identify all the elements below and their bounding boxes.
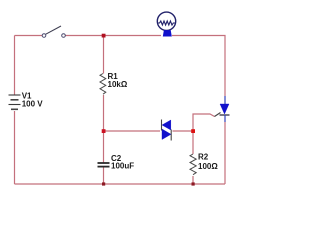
resistor R1 zigzag — [100, 74, 106, 95]
junction mid right — [191, 129, 195, 133]
junction bottom right — [192, 182, 195, 185]
SCR Q1 gate diagonal — [215, 113, 221, 117]
wire lamp to top right corner — [172, 36, 225, 97]
junction top — [102, 34, 106, 38]
switch S lever — [46, 26, 61, 34]
switch S right contact — [62, 34, 66, 38]
wire left vertical (battery top lead) — [14, 36, 16, 96]
wire top junction to lamp — [104, 35, 162, 37]
SCR Q1 triangle — [220, 104, 229, 114]
SCR Q1 cathode lead — [224, 115, 226, 122]
battery V1 plates — [9, 94, 21, 96]
wire top left to switch — [15, 35, 43, 37]
switch S left contact — [42, 34, 46, 38]
lamp X1 filament — [158, 21, 176, 25]
wire bottom rail — [15, 183, 226, 185]
diac D1 top triangle — [162, 120, 171, 130]
resistor R2 zigzag — [190, 154, 196, 175]
svg-text:100Ω: 100Ω — [198, 162, 218, 171]
wire middle branch R1 — [103, 36, 105, 74]
wire C2 bottom lead — [103, 167, 105, 185]
lamp X1 envelope — [157, 12, 175, 30]
wire left vertical (battery bottom lead) — [14, 111, 16, 184]
wire SCR cathode to bottom right corner — [224, 122, 226, 184]
wire gate branch — [193, 114, 215, 131]
svg-text:10kΩ: 10kΩ — [108, 80, 128, 89]
diac D1 right bar — [170, 130, 172, 141]
SCR Q1 anode lead — [224, 96, 226, 104]
svg-text:100uF: 100uF — [111, 162, 134, 171]
lamp X1 base — [163, 31, 171, 36]
wire middle horizontal to diac — [104, 130, 161, 132]
svg-text:R2: R2 — [198, 153, 209, 162]
wire switch to top junction — [66, 35, 104, 37]
junction mid left — [102, 129, 106, 133]
wire C2 top lead — [103, 131, 105, 163]
capacitor C2 top plate — [98, 162, 110, 164]
SCR Q1 cathode bar — [220, 114, 230, 116]
capacitor C2 bottom plate — [98, 166, 110, 168]
diac D1 bottom triangle — [162, 129, 171, 140]
diac D1 left bar — [161, 120, 163, 131]
junction bottom left — [102, 182, 105, 185]
wire R2 branch — [192, 131, 194, 154]
wire diac to junction — [173, 130, 194, 132]
svg-text:100 V: 100 V — [22, 99, 44, 108]
